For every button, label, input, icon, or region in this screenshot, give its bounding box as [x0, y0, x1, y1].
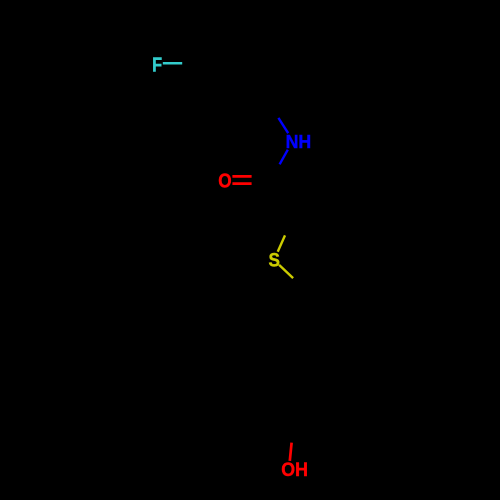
svg-text:OH: OH — [281, 458, 308, 480]
bond C(ring)-N upper (nitrogen half, blue) — [278, 118, 288, 133]
svg-text:F: F — [152, 53, 162, 76]
double bond C=O lower line (oxygen half, red) — [232, 182, 251, 185]
bond C2-S upper (sulfur half, yellow) — [278, 235, 285, 251]
double bond C=O upper line (oxygen half, red) — [232, 175, 251, 178]
bond S-C5 lower (sulfur half, yellow) — [279, 265, 293, 278]
svg-text:NH: NH — [286, 132, 312, 152]
bond F-C (fluorine half, cyan) — [163, 62, 182, 65]
svg-text:O: O — [218, 169, 231, 192]
bond C-O (oxygen half, red) — [290, 443, 292, 461]
bond N-C(=O) lower (nitrogen half, blue) — [280, 150, 288, 165]
